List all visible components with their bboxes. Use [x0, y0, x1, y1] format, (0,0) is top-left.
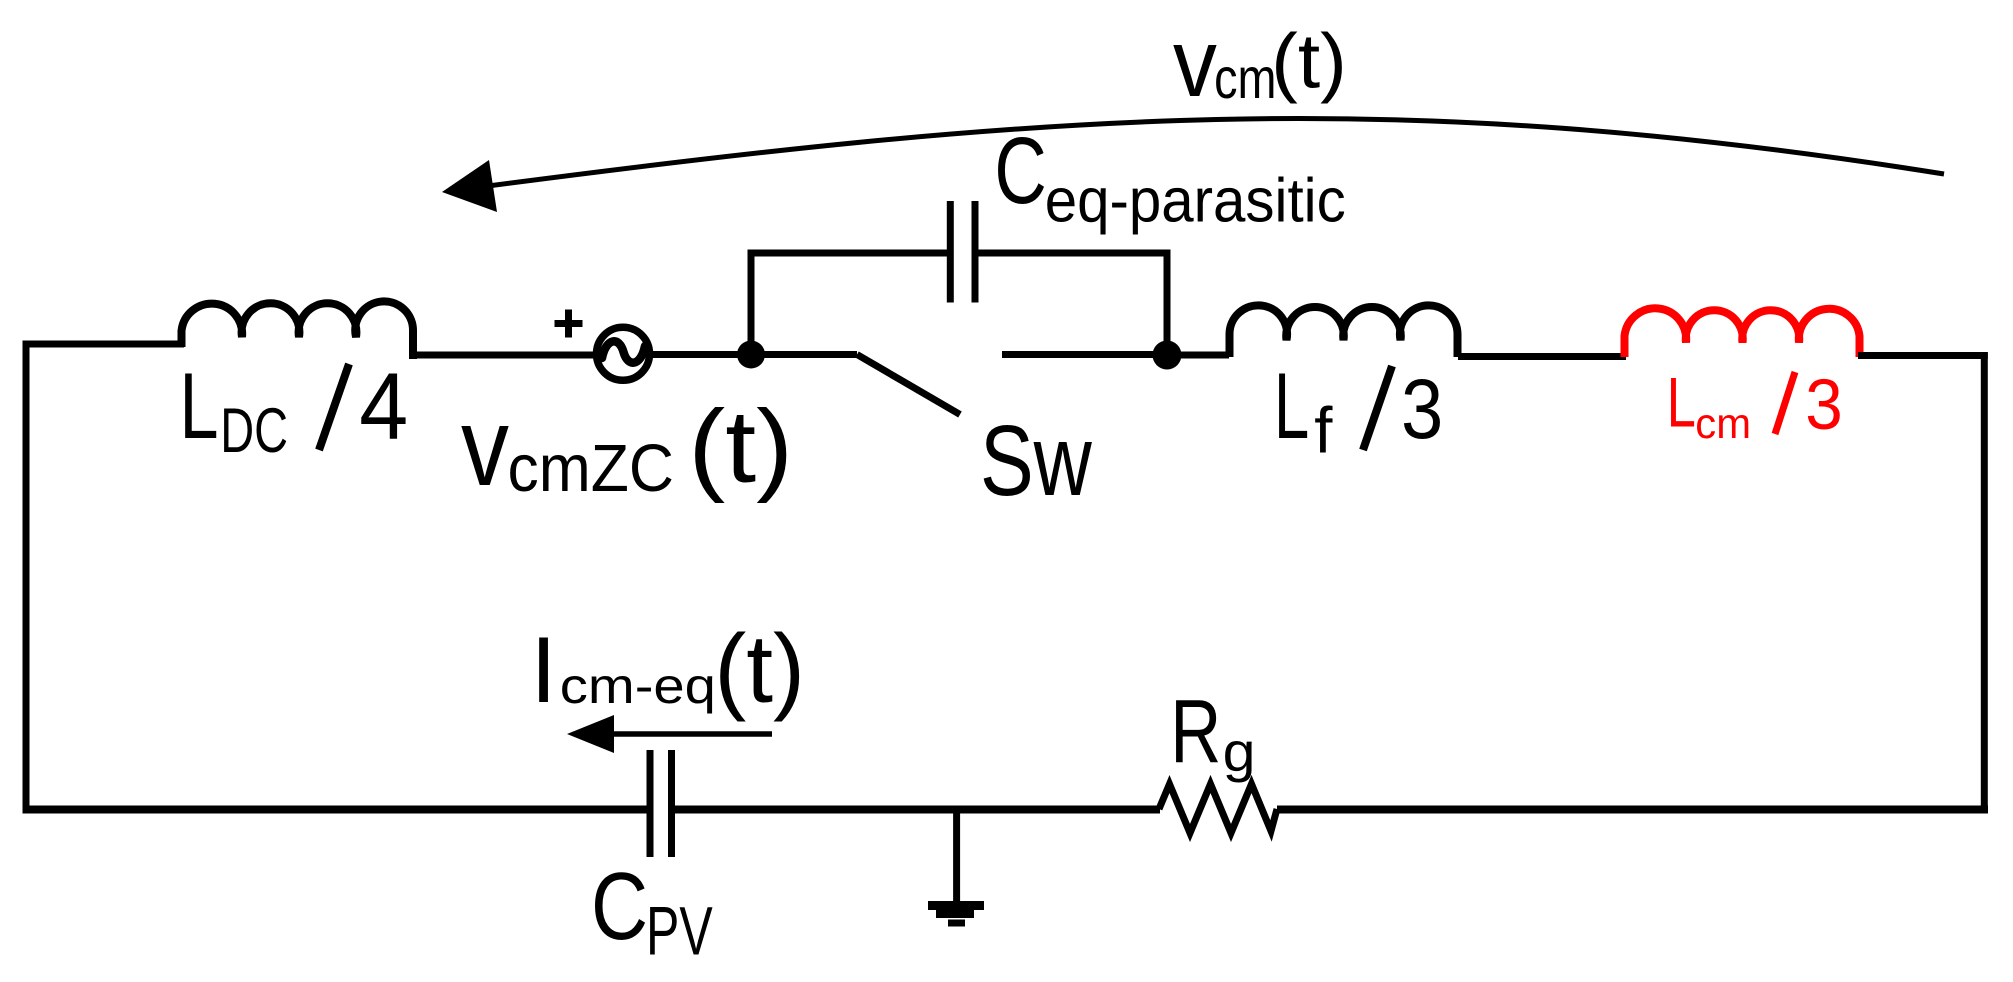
capacitor CPV right plate — [668, 750, 675, 857]
svg-text:v: v — [1173, 10, 1217, 117]
vcm curve arrowhead — [442, 160, 497, 212]
plus sign — [555, 310, 583, 338]
wire node A stub up — [748, 250, 755, 355]
wire LDC to source — [412, 352, 600, 359]
svg-text:cm: cm — [1214, 47, 1276, 111]
ground bar 3 — [948, 920, 965, 927]
svg-text:v: v — [461, 384, 509, 509]
svg-text:(t): (t) — [714, 614, 805, 723]
wire node B to Lf — [1167, 352, 1229, 359]
switch Sw blade — [857, 355, 960, 415]
wire bottom left segment — [23, 806, 647, 814]
ground bar 1 — [928, 901, 984, 910]
wire source to node A — [649, 351, 756, 358]
svg-text:I: I — [531, 617, 557, 722]
arrow Icm-eq shaft — [604, 731, 772, 737]
svg-text:C: C — [994, 118, 1046, 223]
svg-text:4: 4 — [359, 354, 408, 459]
ground bar 2 — [936, 910, 974, 918]
svg-text:Sw: Sw — [980, 405, 1092, 517]
ground stem — [953, 810, 960, 904]
wire bottom right segment — [1277, 806, 1988, 814]
wire capacitor right horizontal — [979, 250, 1171, 257]
svg-text:DC: DC — [220, 396, 288, 466]
capacitor CPV left plate — [647, 750, 654, 857]
svg-text:L: L — [1667, 363, 1696, 442]
svg-text:L: L — [179, 353, 218, 458]
vcm curve arrow line — [450, 119, 1944, 191]
arrow Icm-eq head — [567, 715, 614, 753]
wire switch right contact — [1002, 351, 1167, 358]
inductor Lf — [1230, 305, 1458, 357]
wire top-left horizontal — [23, 341, 185, 348]
svg-text:cm: cm — [1695, 400, 1751, 448]
svg-text:(t): (t) — [1271, 19, 1347, 105]
svg-text:3: 3 — [1805, 365, 1843, 445]
wire left vertical — [23, 341, 30, 814]
inductor LDC — [182, 301, 414, 359]
wire bottom middle segment — [675, 806, 1160, 814]
source vcmZC circle — [597, 327, 650, 380]
svg-text:cmZC: cmZC — [508, 431, 674, 506]
svg-text:L: L — [1274, 353, 1309, 458]
svg-text:PV: PV — [646, 892, 713, 970]
svg-text:(t): (t) — [688, 388, 793, 503]
svg-text:f: f — [1314, 394, 1333, 467]
wire node B stub up — [1164, 250, 1171, 356]
wire Lcm to right corner — [1858, 352, 1988, 359]
capacitor Ceq left plate — [947, 201, 954, 303]
svg-text:g: g — [1223, 721, 1256, 783]
capacitor Ceq right plate — [972, 201, 979, 303]
node B dot — [1153, 341, 1182, 370]
node A dot — [737, 341, 765, 369]
svg-text:3: 3 — [1401, 362, 1443, 456]
wire capacitor left horizontal — [748, 250, 948, 257]
wire right vertical — [1981, 352, 1988, 814]
resistor Rg — [1159, 784, 1277, 833]
svg-text:C: C — [591, 853, 648, 960]
source tilde — [602, 341, 645, 362]
label Lf slash — [1363, 366, 1392, 450]
label LDC slash — [319, 364, 349, 450]
label Lcm slash red — [1775, 372, 1795, 434]
svg-text:cm-eq: cm-eq — [560, 658, 716, 714]
svg-text:R: R — [1170, 682, 1221, 782]
wire node A to switch pivot — [751, 351, 857, 358]
wire Lf to Lcm — [1458, 353, 1626, 360]
inductor Lcm red — [1625, 308, 1860, 357]
svg-text:eq-parasitic: eq-parasitic — [1045, 167, 1346, 236]
